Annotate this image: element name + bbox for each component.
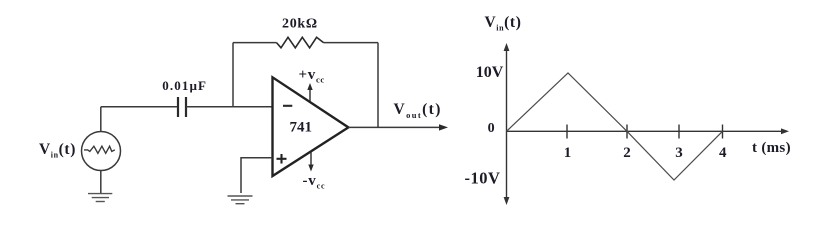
- x-axis arrowhead: [781, 128, 789, 134]
- op-amp U1 triangle: [273, 77, 349, 176]
- graph x-axis: [507, 130, 786, 132]
- svg-text:0.01µF: 0.01µF: [162, 78, 207, 93]
- wire source bottom: [100, 171, 102, 194]
- svg-text:4: 4: [719, 145, 727, 161]
- graph y-axis: [506, 47, 508, 201]
- output wire: [348, 126, 444, 128]
- source waveform symbol: [84, 146, 115, 153]
- -vcc arrow: [310, 152, 312, 169]
- svg-text:1: 1: [564, 145, 572, 161]
- node feedback left vertical wire: [232, 43, 234, 107]
- capacitor C1 plates: [177, 97, 179, 117]
- ground source: [88, 194, 112, 202]
- svg-text:2: 2: [623, 145, 631, 161]
- feedback right vertical wire: [377, 43, 379, 128]
- svg-text:20kΩ: 20kΩ: [282, 16, 318, 31]
- voltage source VS1: [82, 132, 121, 171]
- svg-text:10V: 10V: [476, 64, 504, 81]
- feedback top wire right segment: [324, 42, 379, 44]
- triangle waveform: [507, 73, 723, 180]
- tick 4: [722, 125, 724, 139]
- op-amp minus sign: [283, 105, 292, 107]
- resistor R1 20k zigzag: [277, 37, 324, 48]
- non-inverting input wire: [241, 158, 273, 193]
- output arrowhead: [439, 124, 448, 130]
- wire main to capacitor: [101, 106, 177, 108]
- wire source top: [100, 107, 102, 132]
- ground op-amp: [228, 196, 253, 204]
- svg-text:3: 3: [675, 145, 683, 161]
- svg-text:-10V: -10V: [465, 168, 501, 187]
- y-axis top arrowhead: [504, 43, 510, 51]
- tick 3: [678, 125, 680, 139]
- svg-text:t (ms): t (ms): [752, 140, 791, 156]
- op-amp plus sign: [277, 158, 287, 160]
- svg-text:0: 0: [488, 121, 495, 136]
- svg-text:741: 741: [290, 119, 313, 135]
- feedback top wire left segment: [233, 42, 277, 44]
- wire capacitor to op-amp inverting input: [186, 106, 273, 108]
- tick 1: [566, 125, 568, 139]
- y-axis bottom arrowhead: [504, 197, 510, 205]
- tick 2: [626, 125, 628, 139]
- +vcc arrow: [309, 86, 311, 102]
